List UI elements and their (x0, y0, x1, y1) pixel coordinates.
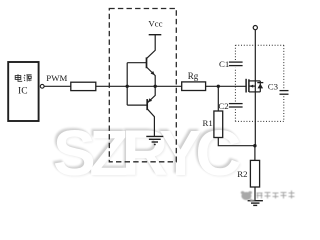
watermark SZRYC (53, 116, 235, 190)
watermark caption text (257, 191, 295, 199)
node emitter junction (154, 85, 157, 88)
body diode line (259, 81, 261, 92)
MOSFET Q3 source stub (249, 91, 260, 93)
svg-text:Rg: Rg (188, 71, 199, 81)
body diode triangle (258, 84, 264, 89)
capacitor C1 (229, 62, 243, 66)
MOSFET Q3 gate bar (245, 79, 247, 93)
wire R1 to source node (218, 138, 255, 146)
resistor R1 (214, 111, 223, 138)
svg-text:C2: C2 (218, 101, 228, 111)
watermark logo blob (241, 191, 255, 202)
capacitor C3 (280, 91, 289, 95)
wire base tee vertical (126, 63, 128, 105)
node gate branch (217, 85, 220, 88)
ground (driver stage) (146, 136, 163, 144)
wire gate node down to R1 (217, 86, 219, 111)
drain terminal circle (253, 26, 257, 30)
resistor Rg (182, 82, 206, 91)
transistor Q2 PNP emitter (148, 86, 155, 102)
wire resistor to driver input (96, 85, 182, 87)
label 电 (of 电源) (15, 74, 22, 81)
power IC box (8, 62, 38, 121)
wire drain vertical (254, 30, 256, 146)
node source R2 junction (253, 144, 256, 147)
transistor Q1 NPN base bar (146, 57, 148, 68)
svg-text:PWM: PWM (46, 73, 67, 83)
svg-text:C1: C1 (219, 59, 229, 69)
MOSFET Q3 channel bar (248, 79, 250, 92)
terminal circle PWM output (40, 84, 44, 88)
resistor R2 (250, 160, 259, 187)
MOSFET Q3 body stub (249, 85, 255, 87)
svg-text:IC: IC (18, 86, 28, 96)
wire PWM output to series resistor (44, 85, 71, 87)
svg-text:R1: R1 (203, 118, 213, 128)
transistor Q1 NPN emitter arrow (151, 71, 155, 75)
wire source node to R2 (254, 146, 256, 161)
transistor Q2 PNP base lead (127, 104, 147, 106)
Vcc rail bar (149, 34, 162, 36)
transistor Q2 PNP emitter arrow (148, 98, 152, 102)
ground (source side) (248, 201, 263, 206)
transistor Q1 NPN emitter (147, 67, 156, 86)
transistor Q2 PNP base bar (146, 99, 148, 110)
label 源 (of 电源) (24, 75, 32, 82)
transistor Q2 PNP collector (147, 109, 154, 137)
parasitic network dotted box (235, 45, 283, 121)
node base junction (126, 85, 129, 88)
wire Rg to gate (206, 85, 247, 87)
MOSFET Q3 drain stub (249, 80, 260, 82)
transistor Q1 NPN base lead (127, 62, 146, 64)
driver stage dashed box (109, 9, 176, 162)
svg-text:R2: R2 (237, 169, 247, 179)
capacitor C2 (229, 104, 243, 107)
MOSFET Q3 body arrow (250, 85, 254, 88)
resistor R (PWM series) (71, 82, 96, 90)
svg-text:C3: C3 (268, 81, 279, 91)
wire R2 to ground (254, 187, 256, 201)
svg-text:Vcc: Vcc (148, 18, 162, 28)
body diode cathode bar (257, 82, 263, 84)
transistor Q1 NPN collector (147, 35, 156, 59)
